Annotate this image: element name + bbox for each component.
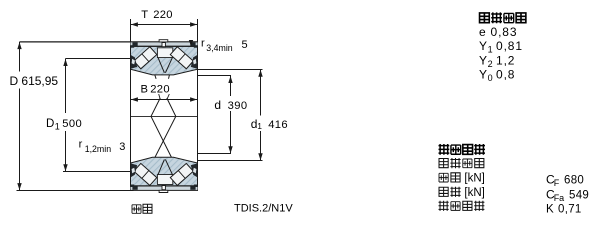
upper right tapered roller bbox=[170, 47, 193, 69]
svg-text:220: 220 bbox=[153, 9, 173, 21]
svg-text:Y: Y bbox=[479, 68, 487, 82]
lower right tapered roller bbox=[170, 163, 193, 185]
svg-text:e: e bbox=[479, 25, 486, 39]
svg-text:r: r bbox=[201, 38, 205, 50]
wire bearing left side face bbox=[130, 41, 132, 191]
svg-text:[kN]: [kN] bbox=[464, 187, 484, 199]
upper lubrication groove W33 bbox=[159, 40, 168, 42]
wire bearing axis centerline bbox=[131, 115, 198, 117]
node header comparative data (dui bi shu ju) bbox=[439, 144, 450, 155]
svg-text:0,8: 0,8 bbox=[496, 68, 515, 82]
wire T-dim right extension line bbox=[197, 19, 199, 42]
node r3,4min arrow bbox=[189, 40, 193, 46]
lower lubrication groove W33 bbox=[159, 190, 168, 192]
svg-text:0,81: 0,81 bbox=[496, 39, 523, 53]
node label rated loads (e ding zai he) bbox=[439, 159, 448, 168]
wire D dimension line lower bbox=[19, 89, 21, 191]
wire d dimension line upper bbox=[230, 76, 232, 96]
lower band right corner detail bbox=[190, 186, 195, 190]
lower left roller end dark wedge bbox=[131, 163, 137, 177]
wire d1 dimension line lower bbox=[260, 131, 262, 161]
wire D1 bottom extension line bbox=[63, 171, 132, 173]
svg-text:500: 500 bbox=[62, 118, 82, 130]
svg-text:r: r bbox=[79, 138, 83, 150]
wire T dimension line with arrows bbox=[131, 24, 198, 26]
svg-text:TDIS.2/N1V: TDIS.2/N1V bbox=[234, 203, 293, 215]
wire d1 bottom extension line bbox=[198, 160, 263, 162]
svg-text:K: K bbox=[546, 203, 554, 215]
lower center cage gap bbox=[157, 175, 172, 185]
wire d dimension line lower bbox=[230, 111, 232, 154]
wire D bottom extension line bbox=[17, 190, 134, 192]
wire D top extension line bbox=[20, 41, 131, 43]
svg-text:0,83: 0,83 bbox=[491, 25, 518, 39]
wire bearing top face edge bbox=[131, 41, 198, 43]
svg-text:d: d bbox=[214, 98, 221, 112]
upper band left corner detail bbox=[132, 42, 137, 46]
wire D1 top extension line bbox=[66, 58, 131, 60]
upper ring assembly body (outer + inner rings) bbox=[131, 46, 198, 75]
svg-text:680: 680 bbox=[564, 175, 584, 187]
wire d1 dimension line upper bbox=[260, 70, 262, 116]
svg-text:D: D bbox=[10, 74, 19, 88]
svg-text:1: 1 bbox=[55, 122, 60, 132]
lower band left corner detail bbox=[132, 186, 137, 190]
wire D1 dimension line lower bbox=[65, 131, 67, 172]
svg-text:2: 2 bbox=[488, 59, 493, 69]
svg-text:1: 1 bbox=[488, 45, 493, 55]
wire D dimension line upper bbox=[19, 42, 21, 72]
wire D1 dimension line upper bbox=[65, 59, 67, 114]
svg-text:Fa: Fa bbox=[554, 193, 565, 203]
svg-text:615,95: 615,95 bbox=[21, 74, 58, 88]
node design caption (she ji) bbox=[132, 205, 141, 214]
svg-text:Y: Y bbox=[479, 53, 487, 67]
svg-text:0,71: 0,71 bbox=[558, 203, 582, 215]
wire d top extension line bbox=[198, 75, 232, 77]
lower inner ring gap groove bbox=[158, 159, 172, 174]
svg-text:1,2: 1,2 bbox=[496, 53, 515, 67]
upper inner ring gap groove bbox=[158, 58, 172, 73]
wire bearing right side face bbox=[197, 41, 199, 191]
svg-text:1,2min: 1,2min bbox=[85, 144, 112, 154]
svg-text:Y: Y bbox=[479, 39, 487, 53]
svg-text:D: D bbox=[46, 118, 54, 130]
wire stub left above B line bbox=[159, 94, 161, 100]
svg-text:5: 5 bbox=[242, 39, 248, 51]
upper center cage gap bbox=[157, 48, 172, 58]
svg-text:0: 0 bbox=[488, 73, 493, 83]
node label radial (jing xiang) bbox=[439, 173, 448, 182]
svg-text:B: B bbox=[141, 84, 148, 96]
upper face band (side ring) bbox=[131, 42, 198, 46]
svg-text:220: 220 bbox=[150, 84, 170, 96]
lower face band (side ring) bbox=[131, 186, 198, 190]
upper right roller end dark wedge bbox=[191, 55, 197, 69]
lower right roller end dark wedge bbox=[191, 163, 197, 177]
wire d1 top extension line bbox=[198, 69, 263, 71]
svg-text:3: 3 bbox=[119, 141, 125, 153]
wire stub right above B line bbox=[167, 94, 169, 100]
node header calculation factors (ji suan xi shu) bbox=[480, 13, 490, 23]
lower ring assembly body (outer + inner rings) bbox=[131, 157, 198, 186]
lower left tapered roller bbox=[134, 163, 157, 185]
upper left tapered roller bbox=[134, 47, 157, 69]
svg-text:549: 549 bbox=[569, 189, 589, 201]
svg-text:[kN]: [kN] bbox=[464, 173, 484, 185]
upper left roller end dark wedge bbox=[131, 55, 137, 69]
wire B dimension line with arrows bbox=[131, 99, 198, 101]
wire T-dim left extension line bbox=[130, 19, 132, 42]
wire bearing bottom face edge bbox=[131, 189, 198, 191]
svg-text:1: 1 bbox=[257, 121, 262, 131]
node label axial (zhou xiang) bbox=[439, 187, 448, 196]
wire pressure line left (apex to lower-right) bbox=[151, 98, 172, 166]
upper outer ring face line bbox=[131, 45, 198, 47]
wire pressure line right (apex to lower-left) bbox=[155, 98, 176, 166]
svg-text:3,4min: 3,4min bbox=[206, 43, 233, 53]
node label thrust factor (tui li xi shu) bbox=[439, 201, 449, 211]
wire upper raceway stub right bbox=[169, 69, 171, 79]
wire d bottom extension line bbox=[198, 153, 232, 155]
upper band right corner detail bbox=[190, 42, 195, 46]
svg-text:T: T bbox=[141, 9, 148, 21]
lower outer ring face line bbox=[131, 185, 198, 187]
wire upper raceway stub left bbox=[153, 69, 156, 79]
svg-text:416: 416 bbox=[268, 119, 288, 131]
svg-text:390: 390 bbox=[228, 100, 248, 112]
